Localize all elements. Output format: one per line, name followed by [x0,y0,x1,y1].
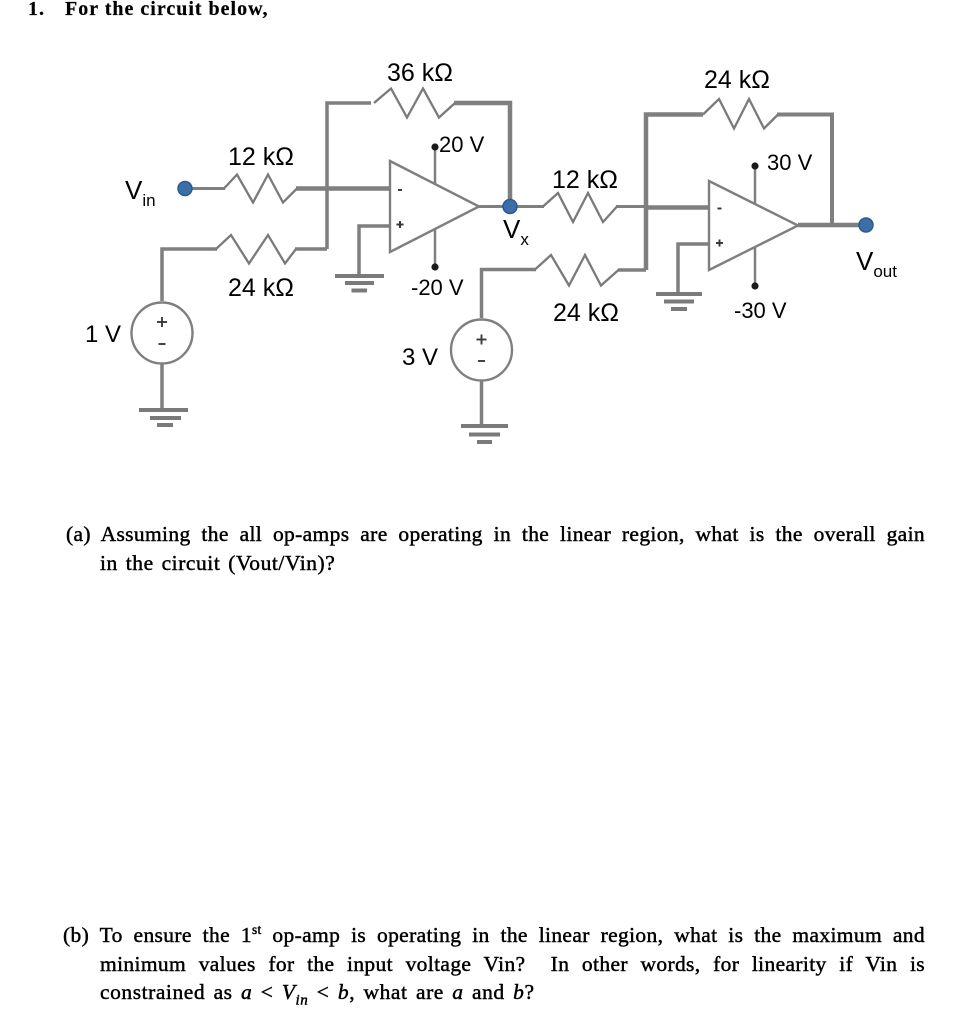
svg-text:1 V: 1 V [85,321,121,348]
svg-text:3 V: 3 V [402,344,438,371]
svg-text:24 kΩ: 24 kΩ [228,274,294,302]
svg-text:24 kΩ: 24 kΩ [704,66,770,94]
svg-text:-30 V: -30 V [734,298,787,323]
svg-text:Vin: Vin [125,175,156,210]
svg-text:24 kΩ: 24 kΩ [553,299,619,327]
svg-text:30 V: 30 V [767,150,813,175]
svg-text:20 V: 20 V [439,132,485,157]
svg-text:-20 V: -20 V [411,275,464,300]
svg-text:12 kΩ: 12 kΩ [552,166,618,194]
svg-text:Vout: Vout [856,246,897,281]
svg-text:12 kΩ: 12 kΩ [228,143,294,171]
svg-text:Vx: Vx [503,214,529,249]
svg-text:36 kΩ: 36 kΩ [387,59,453,87]
